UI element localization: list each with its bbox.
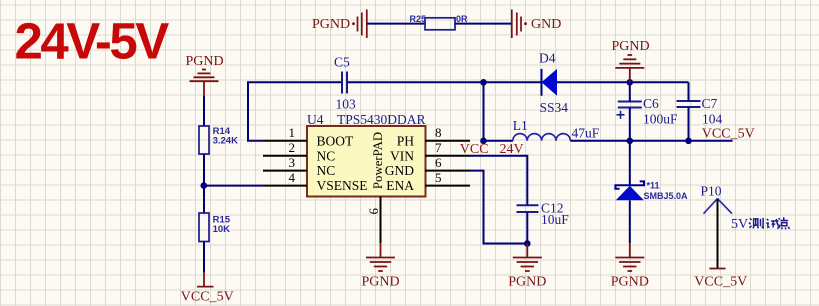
svg-text:PGND: PGND [312, 17, 350, 32]
svg-text:1: 1 [289, 125, 296, 140]
svg-text:6: 6 [435, 155, 442, 170]
svg-text:ENA: ENA [386, 178, 414, 193]
svg-text:D4: D4 [539, 51, 556, 66]
wire C6 bottom [629, 108, 631, 141]
svg-text:GND: GND [531, 17, 561, 32]
svg-text:NC: NC [317, 163, 336, 178]
junction node C7 bottom [685, 138, 692, 145]
pin 5 ENA stub [425, 185, 470, 187]
svg-text:4: 4 [289, 170, 296, 185]
svg-text:R25: R25 [410, 14, 427, 24]
glyph dian [778, 217, 790, 229]
capacitor C12 [517, 205, 539, 212]
wire D4 to PGND junction [557, 81, 689, 83]
svg-text:P10: P10 [701, 183, 722, 198]
wire L1 to VCC_5V [570, 140, 732, 142]
junction node C12/GND [524, 240, 531, 247]
svg-text:PGND: PGND [361, 274, 399, 289]
junction node VSENSE divider [201, 182, 208, 189]
wire C5 to PH riser [347, 81, 541, 83]
svg-text:GND: GND [385, 163, 414, 178]
junction node PH line [480, 138, 487, 145]
wire PGND to R25 [367, 23, 425, 25]
op-amp U1 : IC U4 TPS5430DDAR body [307, 126, 426, 197]
svg-text:10K: 10K [213, 224, 231, 235]
pin 1 BOOT stub [263, 140, 307, 142]
svg-text:C7: C7 [702, 96, 718, 111]
wire GND pin to junction [470, 171, 527, 244]
wire P10 stem [717, 199, 719, 269]
ground PGND (under pin 9) [366, 243, 395, 271]
svg-text:104: 104 [702, 111, 723, 126]
svg-text:5V: 5V [731, 217, 748, 232]
svg-text:VSENSE: VSENSE [317, 178, 368, 193]
diode D4 SS34 [542, 69, 558, 96]
wire riser down to PH [483, 82, 485, 141]
capacitor C5 [342, 72, 347, 94]
wire C12 bottom to junction [526, 212, 528, 244]
wire C6 top [629, 82, 631, 101]
svg-text:5: 5 [435, 170, 442, 185]
svg-text:PGND: PGND [611, 274, 649, 289]
junction node top wire / PH riser [480, 79, 487, 86]
pin 9 PowerPAD stub [380, 197, 382, 244]
wire R14 to R15 [203, 154, 205, 213]
power port VCC_5V (under P10) [710, 268, 726, 270]
svg-text:SMBJ5.0A: SMBJ5.0A [644, 191, 689, 201]
svg-text:VCC_5V: VCC_5V [694, 274, 747, 289]
svg-text:8: 8 [435, 125, 442, 140]
ground PGND (under TVS) [615, 243, 644, 271]
svg-text:24V: 24V [500, 142, 524, 157]
svg-text:2: 2 [289, 140, 296, 155]
svg-text:7: 7 [435, 140, 442, 155]
ground PGND (under C12) [513, 244, 542, 272]
svg-text:U4: U4 [307, 112, 324, 127]
power ground PGND (top middle bar symbol) [352, 10, 367, 39]
wire C7 top [688, 82, 690, 101]
svg-text:3.24K: 3.24K [213, 136, 238, 147]
svg-text:VCC_5V: VCC_5V [181, 290, 234, 305]
plus sign C6 [617, 111, 625, 119]
svg-text:C6: C6 [643, 96, 659, 111]
svg-text:PGND: PGND [508, 274, 546, 289]
glyph shi [766, 219, 769, 227]
svg-text:NC: NC [317, 148, 336, 163]
svg-text:3: 3 [289, 155, 296, 170]
power ground PGND (top right, inverted) [615, 55, 644, 82]
svg-text:TPS5430DDAR: TPS5430DDAR [337, 112, 426, 127]
glyph ce [749, 218, 752, 228]
capacitor C7 [677, 101, 701, 107]
wire VIN to C12 [470, 156, 527, 205]
svg-text:0R: 0R [456, 14, 468, 24]
pin 6 GND stub [425, 170, 470, 172]
junction node top right PGND [627, 79, 634, 86]
svg-text:103: 103 [336, 97, 357, 112]
pin 7 VIN stub [425, 155, 470, 157]
wire C7 bottom [688, 107, 690, 141]
svg-text:SS34: SS34 [540, 100, 569, 115]
svg-text:*11: *11 [647, 180, 660, 190]
svg-text:VIN: VIN [390, 148, 414, 163]
test point P10 [704, 199, 733, 214]
svg-text:L1: L1 [513, 118, 528, 133]
svg-text:VCC: VCC [460, 142, 489, 157]
svg-text:10uF: 10uF [541, 212, 569, 227]
resistor R25 [425, 18, 455, 30]
wire R15 to VCC_5V port [203, 242, 205, 273]
junction node C6 bottom [627, 138, 634, 145]
power ground PGND (above R14) [190, 70, 219, 97]
wire PGND to R14 [203, 96, 205, 126]
wire BOOT to C5 riser [248, 82, 341, 141]
svg-text:C5: C5 [334, 54, 350, 69]
svg-text:PowerPAD: PowerPAD [371, 132, 385, 189]
pin 4 VSENSE stub [263, 185, 307, 187]
wire divider to VSENSE pin [204, 185, 263, 187]
svg-text:24V-5V: 24V-5V [15, 13, 170, 70]
inductor L1 [513, 134, 571, 141]
transistor Q0 : TVS diode SMBJ5.0A [615, 141, 644, 243]
pin 3 NC stub [263, 170, 307, 172]
capacitor C6 (electrolytic) [618, 102, 642, 108]
svg-text:PGND: PGND [186, 54, 224, 69]
pin 8 PH stub [425, 140, 470, 142]
svg-text:47uF: 47uF [572, 125, 600, 140]
pin 2 NC stub [263, 155, 307, 157]
svg-text:VCC_5V: VCC_5V [702, 127, 755, 142]
svg-text:PGND: PGND [612, 39, 650, 54]
svg-text:9: 9 [366, 208, 380, 214]
ground GND (top middle bar symbol) [512, 10, 527, 39]
resistor R14 [199, 126, 209, 154]
resistor R15 [199, 213, 209, 242]
power port VCC_5V (bottom left) [197, 272, 214, 287]
wire R25 to GND [455, 23, 512, 25]
svg-text:BOOT: BOOT [317, 133, 355, 148]
svg-text:PH: PH [397, 133, 415, 148]
wire PH to L1 [484, 140, 514, 142]
svg-text:100uF: 100uF [643, 111, 678, 126]
